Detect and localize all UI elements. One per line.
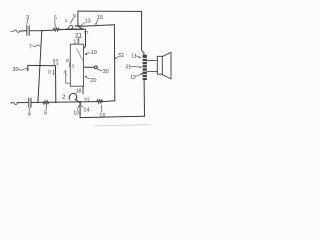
terminal 30 output bbox=[84, 66, 95, 68]
AC source input bottom bbox=[11, 102, 17, 104]
transistor V2 bbox=[69, 93, 77, 100]
svg-text:B: B bbox=[66, 58, 69, 63]
svg-text:10: 10 bbox=[73, 111, 79, 117]
svg-text:V2: V2 bbox=[84, 97, 90, 102]
rail drop wire bbox=[79, 102, 81, 118]
svg-text:F: F bbox=[56, 58, 59, 63]
wire V1 collector to right bbox=[81, 25, 114, 26]
svg-text:9: 9 bbox=[73, 14, 76, 20]
svg-text:12: 12 bbox=[130, 75, 136, 81]
junction node bbox=[79, 101, 81, 103]
svg-text:17: 17 bbox=[74, 39, 80, 45]
node arrows E F B bbox=[54, 63, 69, 67]
svg-text:C: C bbox=[72, 63, 75, 68]
lead box 20 to V2 bbox=[82, 86, 84, 94]
svg-text:1: 1 bbox=[65, 18, 68, 23]
svg-text:18: 18 bbox=[76, 88, 82, 94]
svg-text:30: 30 bbox=[12, 67, 18, 73]
svg-text:19: 19 bbox=[91, 50, 97, 56]
junction node bbox=[41, 30, 43, 32]
transistor V1 bbox=[68, 25, 73, 29]
svg-text:V1: V1 bbox=[84, 29, 90, 34]
wire top bbox=[30, 29, 53, 32]
speaker cone bbox=[162, 52, 171, 79]
svg-text:20: 20 bbox=[90, 78, 96, 84]
resistor R5 bbox=[53, 28, 59, 31]
scan artifact faint line bbox=[94, 125, 150, 126]
junction node bbox=[37, 102, 39, 104]
vertical wire 32 bbox=[113, 25, 115, 101]
capacitor C4 bbox=[29, 98, 31, 107]
svg-text:5: 5 bbox=[54, 16, 57, 22]
resistor 6 bbox=[43, 101, 49, 104]
svg-text:4: 4 bbox=[28, 111, 31, 117]
wire bottom bbox=[31, 101, 43, 103]
rail up to speaker bbox=[143, 80, 145, 116]
wire to corner bbox=[102, 100, 114, 103]
svg-text:11: 11 bbox=[131, 54, 136, 60]
coil 31 bbox=[143, 55, 147, 80]
svg-text:31: 31 bbox=[125, 65, 131, 71]
box 15 left edge bbox=[77, 11, 79, 25]
wire bottom middle bbox=[49, 101, 97, 104]
box 20 bbox=[70, 44, 83, 86]
box 15 top edge bbox=[78, 10, 142, 12]
node 30 left wire bbox=[28, 64, 56, 66]
wire bbox=[59, 28, 68, 31]
speaker magnet rect bbox=[157, 56, 162, 74]
svg-text:16: 16 bbox=[99, 113, 105, 119]
wire vertical left bbox=[38, 31, 42, 103]
svg-text:32: 32 bbox=[118, 53, 124, 59]
junction node bbox=[55, 101, 57, 103]
link rods to magnet bbox=[147, 61, 157, 72]
resistor 16 bbox=[97, 100, 103, 103]
box 15 right edge bbox=[142, 11, 144, 55]
bottom rail bbox=[80, 116, 144, 117]
svg-text:D: D bbox=[48, 70, 51, 75]
lead wire 19 bbox=[84, 29, 85, 48]
svg-text:7: 7 bbox=[29, 44, 32, 50]
capacitor C3 bbox=[27, 26, 29, 35]
AC source input top bbox=[11, 30, 14, 32]
lead V1 to box 20 bbox=[78, 37, 80, 45]
svg-text:13: 13 bbox=[85, 18, 91, 24]
wire vertical from node 30 wire to bottom bbox=[55, 66, 57, 102]
svg-text:6: 6 bbox=[44, 110, 47, 116]
svg-text:2: 2 bbox=[62, 95, 66, 101]
svg-text:14: 14 bbox=[83, 108, 89, 114]
svg-text:30: 30 bbox=[103, 69, 109, 75]
box 20 inner diagonal bbox=[77, 49, 83, 61]
